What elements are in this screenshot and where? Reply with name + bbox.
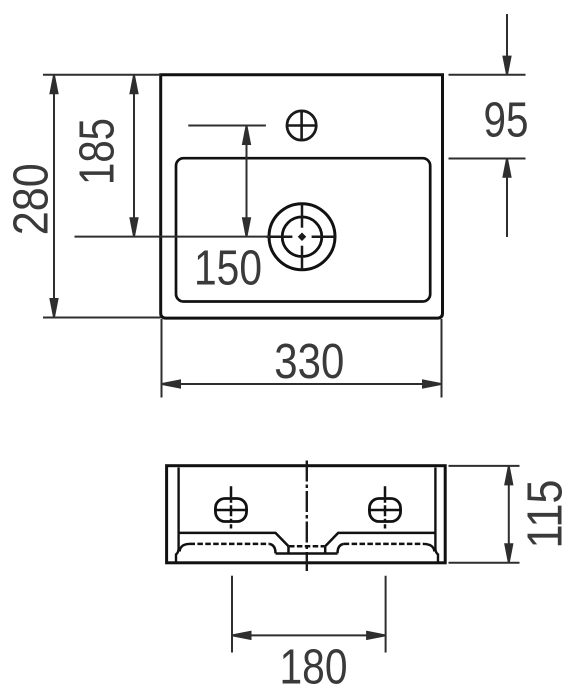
svg-text:115: 115 bbox=[518, 480, 573, 549]
drain boss bbox=[269, 544, 343, 554]
svg-text:185: 185 bbox=[70, 118, 125, 185]
drain level line (extension for 185/150) bbox=[75, 236, 270, 238]
front view centre line bbox=[306, 461, 308, 572]
drain inner circle bbox=[282, 217, 322, 257]
drain outer circle bbox=[269, 204, 335, 270]
dim 330 extension right bbox=[441, 319, 443, 398]
svg-text:95: 95 bbox=[484, 93, 529, 148]
dim 95 extension top bbox=[449, 74, 526, 76]
basin interior floor line bbox=[180, 533, 435, 546]
basin inner bowl (plan view) bbox=[176, 158, 430, 301]
dim 115 extension bottom bbox=[449, 562, 520, 564]
dim 115 extension top bbox=[449, 465, 520, 467]
right fixing hole bbox=[368, 486, 402, 528]
dim 95 arrows bbox=[504, 14, 511, 237]
dim 330 extension left bbox=[161, 319, 163, 398]
faucet centre line bbox=[188, 125, 266, 127]
right inner wall and foot bbox=[424, 468, 439, 563]
drain crosshair bbox=[266, 204, 336, 271]
dim 115 line bbox=[505, 466, 512, 562]
faucet hole bbox=[287, 111, 317, 141]
dim 330 line bbox=[162, 381, 441, 388]
svg-text:330: 330 bbox=[274, 334, 344, 389]
hidden underside line right bbox=[344, 543, 424, 546]
svg-text:150: 150 bbox=[194, 241, 262, 296]
dim 280 line bbox=[51, 75, 58, 317]
svg-text:280: 280 bbox=[4, 163, 59, 235]
hidden underside line left bbox=[190, 543, 270, 546]
dim 280 extension top bbox=[43, 74, 161, 76]
svg-text:180: 180 bbox=[280, 640, 348, 693]
dim 180 extension left bbox=[231, 576, 233, 653]
front view outline bbox=[167, 466, 446, 563]
dim 150 line bbox=[243, 126, 250, 236]
basin outer outline (plan view) bbox=[161, 75, 443, 318]
left inner wall and foot bbox=[176, 468, 190, 563]
left fixing hole bbox=[214, 486, 248, 528]
drain centre dot bbox=[298, 232, 306, 240]
dim 180 line bbox=[233, 632, 386, 639]
dim 280 extension bottom bbox=[43, 317, 161, 319]
dim 95 extension bottom bbox=[449, 158, 526, 160]
dim 185 line bbox=[131, 75, 138, 236]
dim 180 extension right bbox=[385, 576, 387, 653]
